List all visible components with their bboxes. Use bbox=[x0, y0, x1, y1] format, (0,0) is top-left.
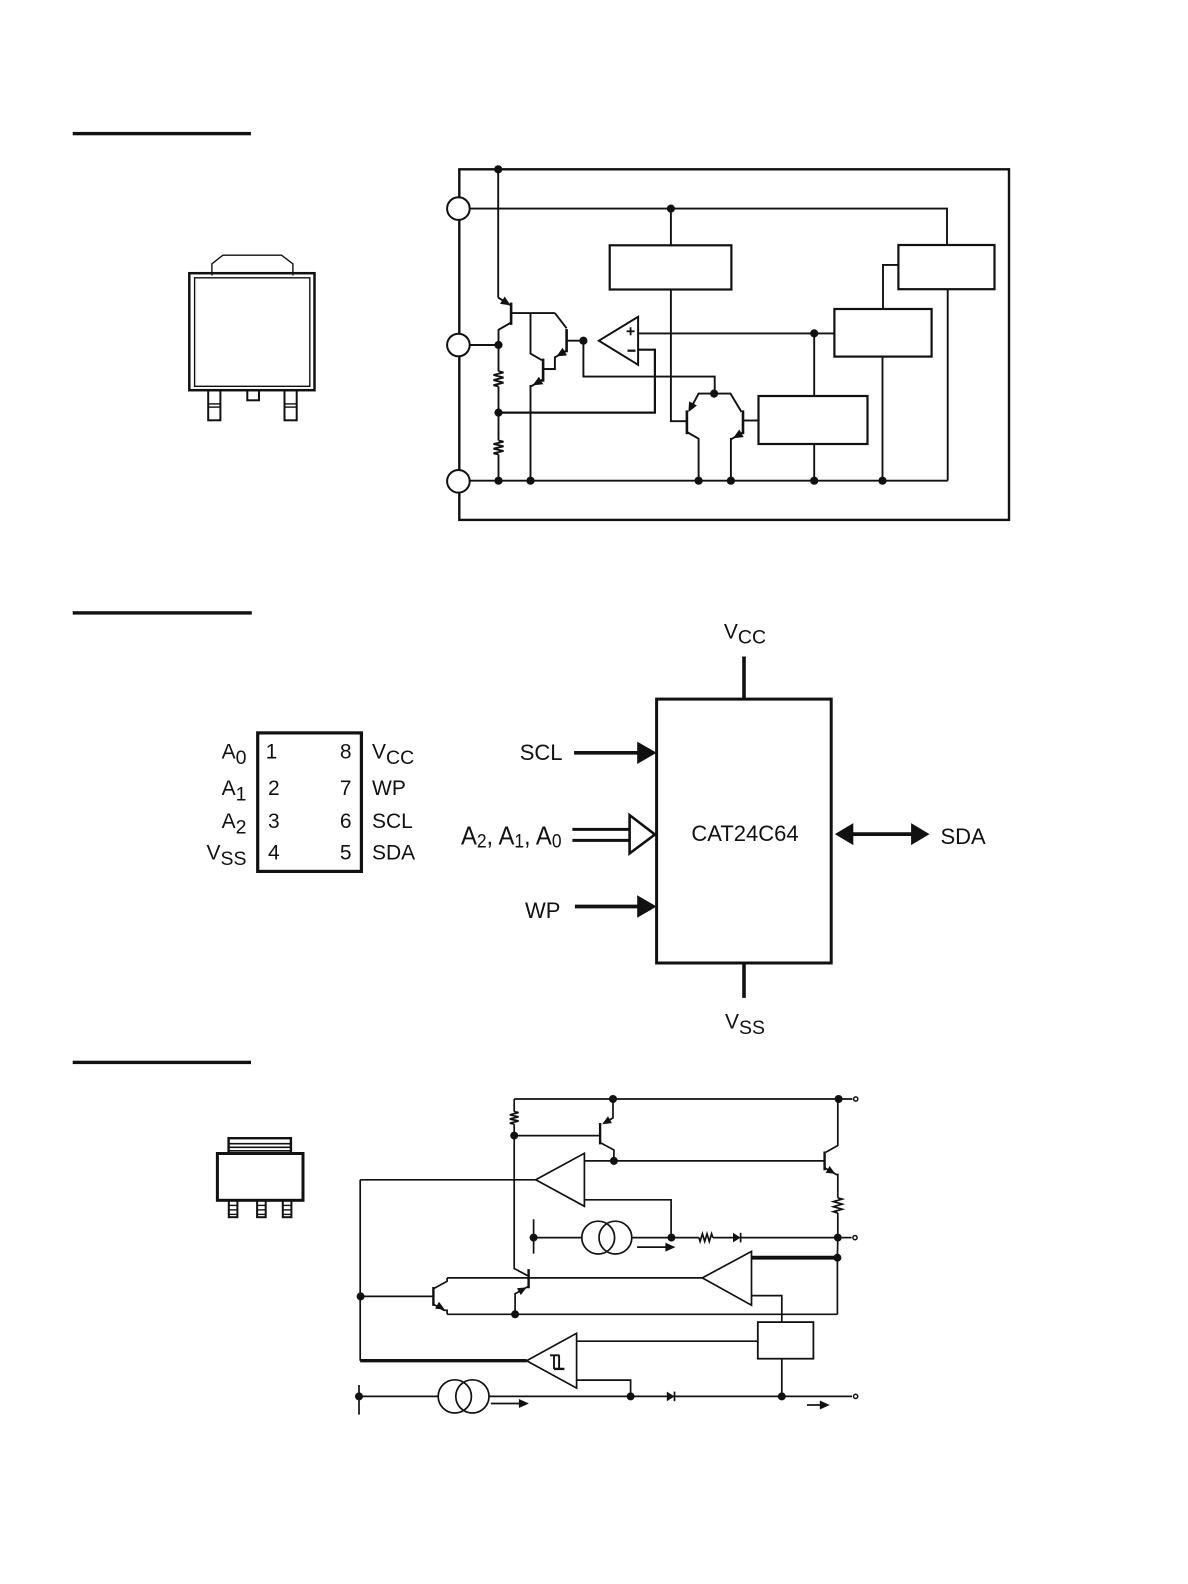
node VIN dot on top rail bbox=[494, 165, 502, 173]
wire pin1 node down into U1 bbox=[670, 209, 672, 246]
op-amp A1 plus sign bbox=[627, 330, 635, 332]
node CS2 left bbox=[355, 1392, 363, 1400]
wire pin2 to node A bbox=[470, 344, 499, 346]
transistor Q2 collector wire bbox=[531, 313, 542, 360]
svg-text:7: 7 bbox=[340, 777, 352, 800]
block U3 bbox=[834, 309, 931, 357]
node diff pair top dot bbox=[710, 390, 718, 398]
package drawing DPAK lead 3 bbox=[285, 390, 297, 420]
diode D1b bbox=[733, 1233, 741, 1243]
node U3 bottom on ground rail bbox=[878, 477, 886, 485]
transistor Qb base bar bbox=[527, 1269, 529, 1288]
svg-text:WP: WP bbox=[372, 777, 406, 800]
wire D1b to right node bbox=[741, 1237, 838, 1239]
section heading rule 1 bbox=[73, 132, 251, 135]
transistor Q2b base bar bbox=[823, 1152, 825, 1171]
wire emitter rail up to amp2 node bbox=[836, 1258, 838, 1315]
wire Qa collector to Qb base to A2b apex bbox=[447, 1277, 702, 1279]
wire U4 bottom to ground rail corner bbox=[947, 289, 949, 481]
address bus open arrow A2 A1 A0 bbox=[572, 828, 629, 831]
block U1 (bias) bbox=[610, 245, 732, 289]
node op-amp output dot bbox=[579, 337, 587, 345]
transistor Q1 emitter wire with arrow bbox=[498, 298, 510, 305]
node right vertical at CS1 line bbox=[834, 1234, 842, 1242]
current source CS2 circles bbox=[438, 1380, 471, 1413]
package drawing DPAK lead 3 bands bbox=[285, 403, 297, 405]
transistor Q2 base lead bbox=[543, 368, 555, 370]
svg-text:SCL: SCL bbox=[520, 740, 563, 765]
node CS1 left bbox=[530, 1234, 538, 1242]
package drawing SOT-223 lead 1 stripes bbox=[229, 1204, 238, 1206]
transistor Q1b emitter wire with arrow bbox=[604, 1099, 614, 1123]
block U2 bbox=[759, 396, 868, 444]
schmitt hysteresis glyph bbox=[550, 1354, 560, 1356]
transistor Q3 emitter wire with arrow bbox=[543, 351, 567, 370]
node R1b bottom bbox=[510, 1132, 518, 1140]
transistor Q4d collector wire bbox=[714, 394, 741, 412]
svg-text:A1: A1 bbox=[222, 777, 247, 806]
svg-text:SCL: SCL bbox=[372, 810, 413, 833]
wire U2 bottom to ground rail bbox=[813, 444, 815, 481]
block CAT24C64 bbox=[657, 699, 832, 963]
block U4 top right bbox=[898, 245, 994, 289]
signal arrow WP bbox=[575, 905, 640, 909]
svg-text:VSS: VSS bbox=[206, 842, 246, 871]
resistor R3b horizontal bbox=[671, 1237, 699, 1239]
node Q3d collector on ground rail bbox=[695, 477, 703, 485]
package drawing SOT-223 lead 3 stripes bbox=[283, 1204, 292, 1206]
wire A2b lower to block Bb bbox=[752, 1296, 782, 1323]
wire R1b node to Q1b base bbox=[514, 1135, 599, 1137]
package drawing SOT-223 lead 2 bbox=[257, 1200, 266, 1217]
wire CS1 line bbox=[534, 1237, 672, 1239]
transistor Q1 collector wire bbox=[499, 323, 512, 346]
svg-text:VCC: VCC bbox=[724, 621, 766, 649]
transistor Q3d emitter wire with arrow bbox=[690, 394, 714, 411]
ground rail bbox=[470, 480, 948, 482]
svg-text:WP: WP bbox=[525, 898, 560, 923]
pin terminal 1 bbox=[447, 197, 470, 220]
node B dot bbox=[494, 409, 502, 417]
package drawing SOT-223 tab stripes bbox=[229, 1143, 291, 1145]
package drawing SOT-223 tab bbox=[229, 1138, 291, 1153]
wire VSS bbox=[742, 963, 746, 998]
section heading rule 3 bbox=[73, 1061, 251, 1064]
current arrow CS2 bbox=[491, 1403, 521, 1405]
svg-text:VSS: VSS bbox=[725, 1011, 765, 1040]
wire feedback node B to op-amp - input bbox=[499, 350, 655, 413]
current source CS2 tick bbox=[358, 1385, 360, 1415]
svg-text:A0: A0 bbox=[222, 740, 247, 769]
resistor R1 bbox=[498, 345, 500, 371]
transistor Q3d collector wire bbox=[687, 432, 699, 481]
svg-text:A2: A2 bbox=[222, 810, 247, 839]
wire VCC bbox=[742, 657, 746, 700]
resistor R1b bbox=[513, 1099, 515, 1112]
node top rail at Q1b bbox=[609, 1095, 617, 1103]
transistor Q3 collector wire bbox=[555, 313, 567, 328]
package drawing DPAK lead 2 (center stub) bbox=[247, 390, 259, 400]
transistor Q2 base bar bbox=[542, 359, 545, 382]
transistor Q3 base lead to op-amp output bbox=[567, 340, 584, 342]
current arrow output bbox=[807, 1404, 822, 1406]
transistor Q4d emitter wire with arrow bbox=[731, 432, 743, 481]
svg-text:A2, A1, A0: A2, A1, A0 bbox=[461, 821, 562, 853]
transistor Qa base bar bbox=[432, 1287, 434, 1306]
wire R3b to diode D1b bbox=[713, 1237, 733, 1239]
transistor Q1b base bar bbox=[599, 1123, 601, 1144]
op-amp A1 triangle bbox=[599, 317, 638, 365]
op-amp A2b triangle bbox=[702, 1251, 751, 1305]
transistor Qa collector wire bbox=[433, 1278, 447, 1289]
transistor Qa emitter wire with arrow bbox=[433, 1304, 447, 1314]
node R2 bottom on ground rail bbox=[494, 477, 502, 485]
svg-text:5: 5 bbox=[340, 842, 352, 865]
wire A3b top output to block Bb bbox=[577, 1340, 758, 1342]
package drawing DPAK body inner bbox=[195, 278, 310, 387]
wire U1 bottom down to Q3d base bbox=[671, 290, 687, 422]
section heading rule 2 bbox=[73, 611, 252, 614]
current source CS1 tick bbox=[533, 1219, 535, 1253]
current source CS1 circles bbox=[582, 1221, 615, 1254]
node CS1 output bbox=[667, 1234, 675, 1242]
op-amp A1 minus sign bbox=[628, 350, 636, 352]
terminal adj pin bbox=[853, 1236, 857, 1240]
wire node down to U2 top bbox=[813, 333, 815, 396]
wire op-amp + input to U3 bbox=[638, 332, 834, 334]
transistor Q2b collector wire bbox=[826, 1099, 838, 1152]
package drawing DPAK tab bbox=[212, 255, 293, 275]
node emitter rail at Qb bbox=[511, 1310, 519, 1318]
wire Q1 base to Q2/Q3 bbox=[511, 312, 555, 314]
transistor Q3 base bar bbox=[565, 329, 568, 352]
left bus vertical bbox=[359, 1180, 361, 1361]
svg-text:2: 2 bbox=[268, 777, 280, 800]
node Q4d emitter on ground rail bbox=[727, 477, 735, 485]
node Bb bottom on rail bbox=[778, 1392, 786, 1400]
block diagram outer box bbox=[459, 169, 1009, 520]
node on pin1 rail bbox=[667, 205, 675, 213]
bidirectional arrow SDA bbox=[849, 832, 914, 836]
node Q1b collector on A1b input bbox=[610, 1157, 618, 1165]
package drawing SOT-223 body bbox=[217, 1154, 303, 1201]
node left bus at Qa base bbox=[357, 1292, 365, 1300]
op-amp A3b (schmitt) triangle bbox=[527, 1333, 577, 1388]
wire left bus to A3b apex thick bbox=[360, 1359, 526, 1362]
transistor Qb emitter wire with arrow bbox=[515, 1286, 529, 1314]
svg-text:4: 4 bbox=[268, 842, 280, 865]
svg-text:SDA: SDA bbox=[372, 842, 415, 865]
wire U4 left to U3 bbox=[883, 265, 898, 309]
transistor Q3d base bar bbox=[686, 410, 689, 434]
package drawing SOT-223 lead 3 bbox=[283, 1200, 292, 1217]
resistor R2b bbox=[833, 1198, 842, 1213]
node top rail right bbox=[835, 1095, 843, 1103]
package drawing SOT-223 lead 1 bbox=[229, 1200, 238, 1217]
bottom output rail bbox=[359, 1395, 852, 1397]
terminal output pin bbox=[854, 1394, 858, 1398]
wire right vertical CS1 node to amp2 node bbox=[836, 1238, 838, 1258]
diode D2b bbox=[667, 1392, 675, 1402]
transistor Q4d base lead to U2 bbox=[743, 420, 759, 422]
transistor Q1 base bar bbox=[510, 303, 513, 325]
wire A3b bottom output to output rail bbox=[577, 1380, 631, 1396]
package drawing SOT-223 lead 2 stripes bbox=[257, 1204, 266, 1206]
transistor Q4d base bar bbox=[742, 410, 745, 434]
transistor Q1b collector wire bbox=[600, 1143, 614, 1161]
pin terminal 2 bbox=[447, 334, 470, 357]
svg-text:VCC: VCC bbox=[372, 740, 414, 769]
package drawing DPAK body outer bbox=[189, 273, 314, 390]
node on + input line bbox=[810, 329, 818, 337]
wire A1b lower input bbox=[584, 1200, 671, 1238]
emitter rail wire bbox=[447, 1313, 837, 1315]
package drawing DPAK lead 1 bands bbox=[208, 403, 220, 405]
wire Qa base lead bbox=[361, 1295, 434, 1297]
wire pin1 rail bbox=[470, 209, 947, 245]
current arrow CS1 bbox=[637, 1246, 668, 1248]
pin terminal 3 bbox=[447, 470, 470, 493]
wire A1b + input line to Q2b base bbox=[584, 1160, 824, 1162]
node amp2 right bbox=[833, 1254, 841, 1262]
node U2 bottom on ground rail bbox=[810, 477, 818, 485]
svg-text:3: 3 bbox=[268, 810, 280, 833]
package drawing DPAK lead 1 bbox=[208, 390, 220, 420]
svg-text:SDA: SDA bbox=[941, 824, 987, 849]
wire A2b top input thick bbox=[752, 1256, 838, 1260]
wire op-amp output to diff pair bbox=[583, 341, 714, 394]
wire VIN down to Q1 emitter bbox=[497, 169, 499, 297]
wire A1b output to left bus bbox=[360, 1179, 536, 1181]
node A3b output on rail bbox=[627, 1392, 635, 1400]
transistor Q2 emitter wire with arrow bbox=[531, 379, 544, 480]
wire Bb bottom to output rail bbox=[781, 1359, 783, 1397]
signal arrow SCL bbox=[574, 751, 640, 755]
svg-text:6: 6 bbox=[340, 810, 352, 833]
transistor Qb collector wire bbox=[514, 1136, 527, 1276]
svg-text:1: 1 bbox=[266, 740, 278, 763]
wire U3 bottom to ground rail bbox=[882, 357, 884, 481]
pin configuration box bbox=[258, 733, 362, 872]
block Bb bbox=[758, 1322, 814, 1359]
op-amp A1b triangle bbox=[536, 1153, 585, 1206]
svg-text:CAT24C64: CAT24C64 bbox=[691, 821, 798, 846]
node A dot bbox=[494, 341, 502, 349]
terminal input pin bbox=[854, 1097, 858, 1101]
top rail (Vin) bottom schematic bbox=[514, 1098, 852, 1100]
node Q2 emitter on ground rail bbox=[526, 477, 534, 485]
resistor R2 bbox=[498, 413, 500, 441]
transistor Q2b emitter wire with arrow bbox=[825, 1168, 838, 1198]
svg-text:8: 8 bbox=[340, 740, 352, 763]
